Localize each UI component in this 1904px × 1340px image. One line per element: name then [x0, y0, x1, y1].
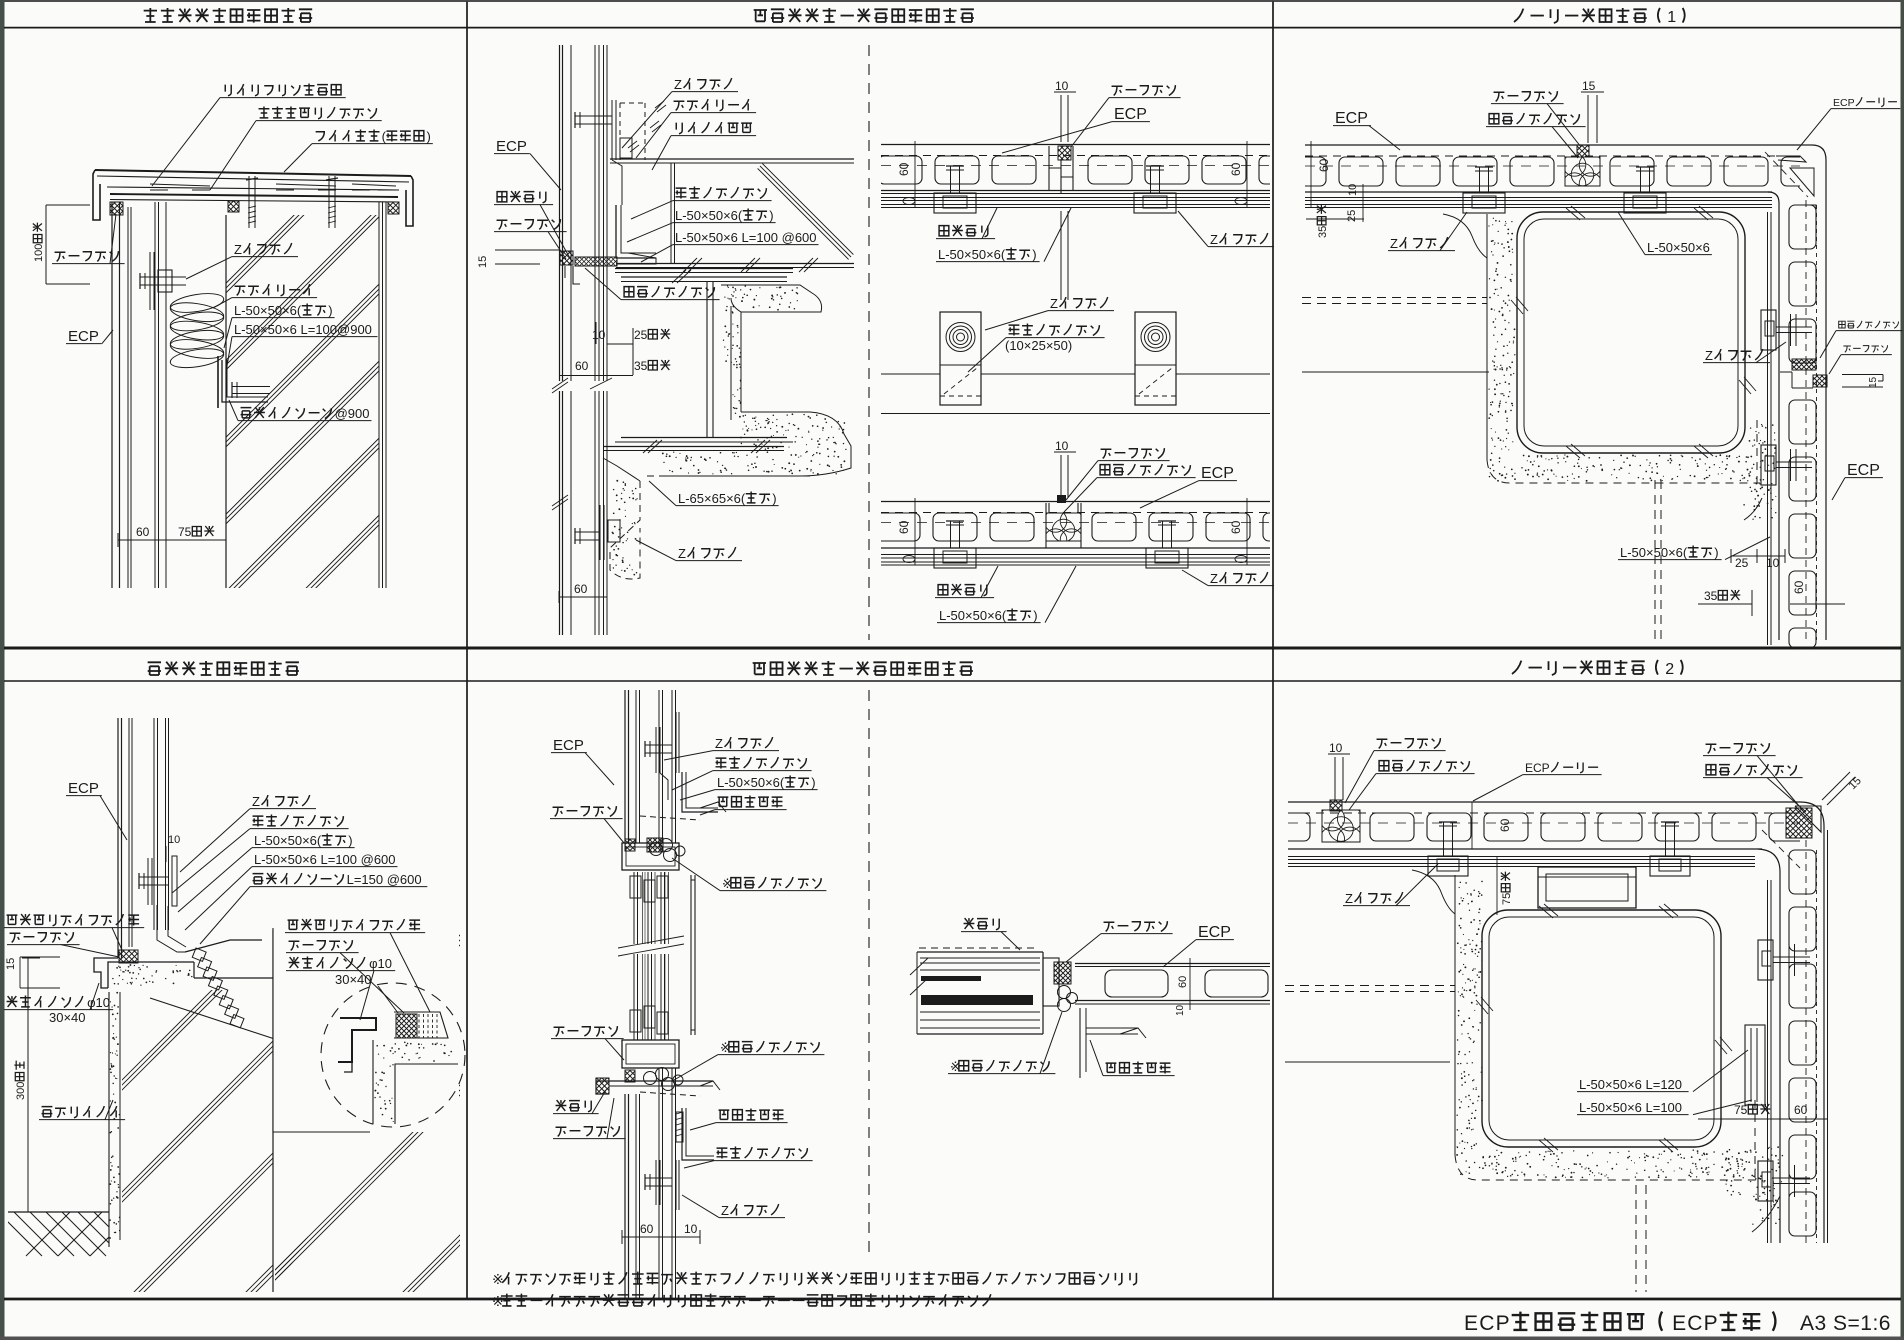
- svg-text:35: 35: [1317, 226, 1329, 238]
- svg-text:L-50×50×6 L=100: L-50×50×6 L=100: [1579, 1100, 1682, 1115]
- svg-text:60: 60: [574, 582, 588, 596]
- svg-text:L-50×50×6(: L-50×50×6(: [717, 775, 785, 790]
- svg-text:Z: Z: [1210, 571, 1218, 586]
- svg-text:ECP: ECP: [1525, 761, 1550, 775]
- svg-text:ECP: ECP: [1114, 106, 1147, 123]
- svg-text:60: 60: [897, 520, 911, 534]
- svg-text:L-50×50×6 L=100 @600: L-50×50×6 L=100 @600: [254, 852, 396, 867]
- svg-text:60: 60: [640, 1222, 654, 1236]
- svg-text:(: (: [382, 129, 387, 144]
- svg-text:※: ※: [492, 1271, 504, 1287]
- svg-text:15: 15: [477, 256, 489, 268]
- svg-text:φ10: φ10: [369, 956, 392, 971]
- svg-text:): ): [1714, 545, 1718, 560]
- svg-text:@900: @900: [335, 406, 370, 421]
- svg-text:L=150 @600: L=150 @600: [347, 872, 422, 887]
- svg-text:L-50×50×6(: L-50×50×6(: [938, 247, 1006, 262]
- svg-text:L-50×50×6 L=100 @600: L-50×50×6 L=100 @600: [675, 230, 817, 245]
- svg-text:(10×25×50): (10×25×50): [1005, 338, 1072, 353]
- svg-text:60: 60: [1177, 976, 1189, 988]
- svg-text:): ): [772, 491, 776, 506]
- svg-text:75: 75: [1501, 893, 1513, 905]
- svg-text:10: 10: [168, 834, 180, 846]
- svg-text:ECP: ECP: [68, 328, 99, 345]
- svg-text:ECP: ECP: [1198, 924, 1231, 941]
- svg-text:Z: Z: [1210, 232, 1218, 247]
- svg-text:Z: Z: [1705, 348, 1713, 363]
- svg-text:Z: Z: [1345, 891, 1353, 906]
- svg-text:75: 75: [1734, 1103, 1748, 1117]
- svg-text:10: 10: [1175, 1004, 1186, 1016]
- svg-text:60: 60: [1498, 818, 1512, 832]
- svg-text:): ): [811, 775, 815, 790]
- svg-text:ECP: ECP: [496, 138, 527, 155]
- svg-text:Z: Z: [674, 77, 682, 92]
- svg-text:10: 10: [1347, 184, 1359, 196]
- svg-text:L-50×50×6 L=120: L-50×50×6 L=120: [1579, 1077, 1682, 1092]
- svg-text:L-50×50×6 L=100@900: L-50×50×6 L=100@900: [234, 322, 372, 337]
- svg-text:): ): [1033, 608, 1037, 623]
- svg-text:): ): [427, 129, 431, 144]
- svg-text:25: 25: [634, 328, 648, 342]
- svg-text:ECP: ECP: [1833, 97, 1855, 109]
- svg-text:2: 2: [1665, 661, 1675, 678]
- svg-text:60: 60: [575, 359, 589, 373]
- svg-text:60: 60: [897, 162, 911, 176]
- svg-text:15: 15: [5, 958, 17, 970]
- svg-text:ECP: ECP: [1201, 465, 1234, 482]
- svg-text:Z: Z: [1050, 296, 1058, 311]
- svg-text:A3 S=1:6: A3 S=1:6: [1800, 1312, 1891, 1335]
- svg-text:35: 35: [1704, 589, 1718, 603]
- svg-text:35: 35: [634, 359, 648, 373]
- svg-text:60: 60: [1229, 520, 1243, 534]
- svg-text:Z: Z: [252, 794, 260, 809]
- svg-text:60: 60: [1794, 1103, 1808, 1117]
- svg-text:ECP: ECP: [553, 737, 584, 754]
- svg-text:60: 60: [136, 525, 150, 539]
- svg-text:L-65×65×6(: L-65×65×6(: [678, 491, 746, 506]
- svg-text:30×40: 30×40: [49, 1010, 86, 1025]
- svg-text:Z: Z: [721, 1203, 729, 1218]
- svg-text:L-50×50×6(: L-50×50×6(: [1620, 545, 1688, 560]
- svg-text:25: 25: [1735, 556, 1749, 570]
- svg-text:15: 15: [1582, 79, 1596, 93]
- svg-text:L-50×50×6(: L-50×50×6(: [254, 833, 322, 848]
- svg-text:10: 10: [684, 1222, 698, 1236]
- svg-text:25: 25: [1346, 210, 1358, 222]
- svg-text:): ): [1032, 247, 1036, 262]
- svg-text:Z: Z: [1390, 236, 1398, 251]
- svg-text:10: 10: [1055, 439, 1069, 453]
- svg-text:L-50×50×6(: L-50×50×6(: [234, 303, 302, 318]
- svg-text:ECP: ECP: [1464, 1312, 1511, 1335]
- svg-text:300: 300: [15, 1082, 27, 1100]
- svg-text:10: 10: [1329, 741, 1343, 755]
- svg-text:75: 75: [178, 525, 192, 539]
- svg-text:60: 60: [1792, 580, 1806, 594]
- svg-text:): ): [769, 208, 773, 223]
- svg-text:60: 60: [1317, 158, 1331, 172]
- svg-text:10: 10: [1055, 79, 1069, 93]
- svg-text:15: 15: [1868, 376, 1879, 388]
- svg-text:Z: Z: [234, 242, 242, 257]
- svg-text:30×40: 30×40: [335, 972, 372, 987]
- svg-text:10: 10: [592, 328, 606, 342]
- svg-text:60: 60: [1229, 162, 1243, 176]
- svg-text:): ): [348, 833, 352, 848]
- svg-text:ECP: ECP: [68, 780, 99, 797]
- svg-text:): ): [328, 303, 332, 318]
- svg-text:L-50×50×6(: L-50×50×6(: [939, 608, 1007, 623]
- svg-text:L-50×50×6(: L-50×50×6(: [675, 208, 743, 223]
- svg-text:Z: Z: [715, 736, 723, 751]
- svg-text:10: 10: [1766, 556, 1780, 570]
- svg-text:100: 100: [33, 244, 45, 262]
- svg-text:L-50×50×6: L-50×50×6: [1647, 240, 1710, 255]
- svg-text:ECP: ECP: [1672, 1312, 1719, 1335]
- svg-text:ECP: ECP: [1335, 110, 1368, 127]
- svg-text:1: 1: [1667, 9, 1677, 26]
- svg-text:Z: Z: [678, 546, 686, 561]
- svg-text:ECP: ECP: [1847, 462, 1880, 479]
